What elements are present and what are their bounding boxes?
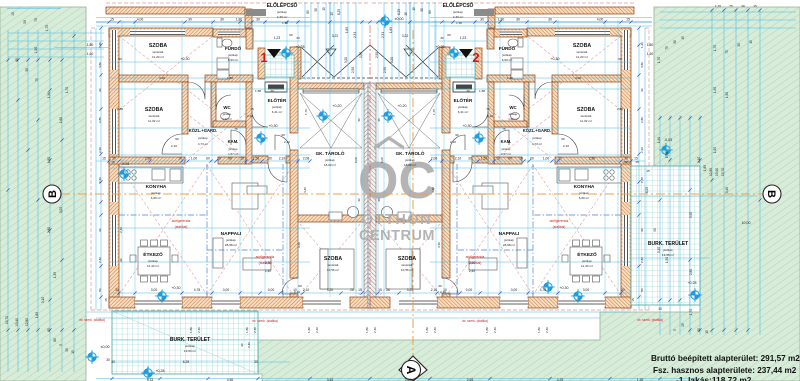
svg-text:1,57 m²: 1,57 m² — [501, 152, 511, 156]
svg-text:19,65 m²: 19,65 m² — [662, 253, 674, 257]
svg-text:13,40: 13,40 — [15, 318, 19, 326]
svg-text:11,20 m²: 11,20 m² — [152, 55, 164, 59]
svg-text:15: 15 — [635, 160, 639, 164]
svg-text:15: 15 — [71, 350, 75, 354]
svg-text:15: 15 — [322, 7, 326, 11]
svg-text:2,40: 2,40 — [98, 257, 102, 263]
svg-text:járólap: járólap — [222, 112, 232, 116]
svg-text:2,80: 2,80 — [689, 269, 693, 275]
svg-text:1,58: 1,58 — [481, 157, 488, 161]
svg-text:15: 15 — [104, 298, 108, 302]
svg-text:15: 15 — [358, 288, 362, 292]
svg-text:2,10: 2,10 — [303, 288, 310, 292]
svg-text:2,40: 2,40 — [469, 269, 475, 273]
svg-text:2,08: 2,08 — [431, 157, 438, 161]
svg-text:75: 75 — [725, 50, 729, 54]
svg-text:1,62 m²: 1,62 m² — [222, 117, 232, 121]
svg-text:1,90: 1,90 — [47, 92, 51, 98]
svg-text:90: 90 — [298, 284, 302, 288]
svg-text:89: 89 — [306, 10, 310, 14]
svg-text:90: 90 — [175, 137, 179, 141]
svg-text:+0,28: +0,28 — [155, 369, 164, 373]
svg-text:3,30: 3,30 — [437, 242, 441, 248]
svg-text:járólap: járólap — [227, 53, 238, 57]
svg-text:30: 30 — [254, 360, 258, 364]
svg-text:15: 15 — [749, 40, 753, 44]
svg-text:15: 15 — [110, 18, 114, 22]
svg-text:járólap: járólap — [501, 147, 511, 151]
entrance arrow 1 — [267, 49, 281, 58]
svg-text:1,60: 1,60 — [59, 117, 63, 123]
svg-text:6,00: 6,00 — [380, 157, 384, 163]
svg-text:járólap: járólap — [271, 105, 282, 109]
svg-text:járólap: járólap — [276, 10, 287, 14]
svg-text:2,31: 2,31 — [353, 32, 357, 38]
svg-text:2,40: 2,40 — [640, 177, 644, 183]
svg-text:1,58: 1,58 — [255, 89, 261, 93]
svg-text:60: 60 — [447, 33, 451, 37]
svg-text:90: 90 — [640, 228, 644, 232]
svg-text:járólap: járólap — [578, 191, 589, 195]
svg-text:+0,30: +0,30 — [268, 124, 277, 128]
svg-text:1,70: 1,70 — [304, 109, 308, 115]
svg-text:26: 26 — [386, 288, 390, 292]
svg-text:KÖZL.+GARD.: KÖZL.+GARD. — [189, 128, 218, 133]
svg-text:75: 75 — [35, 78, 39, 82]
svg-text:12,80: 12,80 — [25, 318, 29, 326]
svg-text:+0,20: +0,20 — [397, 104, 406, 108]
svg-text:acélgerenda: acélgerenda — [550, 219, 569, 223]
svg-text:laminált: laminált — [149, 114, 160, 118]
svg-text:30: 30 — [357, 198, 361, 202]
svg-text:15: 15 — [378, 288, 382, 292]
svg-text:75: 75 — [486, 107, 490, 111]
svg-text:GK. TÁROLÓ: GK. TÁROLÓ — [316, 149, 345, 156]
svg-text:5: 5 — [59, 344, 63, 346]
svg-text:1,80: 1,80 — [485, 327, 489, 333]
svg-text:0,00: 0,00 — [223, 288, 230, 292]
svg-text:laminált: laminált — [153, 50, 164, 54]
svg-text:vb. szerk. (statika): vb. szerk. (statika) — [637, 318, 663, 322]
svg-text:SZOBA: SZOBA — [324, 256, 342, 262]
svg-text:2,30 m²: 2,30 m² — [453, 15, 464, 19]
svg-text:4,00: 4,00 — [575, 76, 581, 80]
svg-text:CENTRUM: CENTRUM — [359, 228, 435, 244]
svg-text:1,90: 1,90 — [657, 137, 661, 143]
svg-text:2,10: 2,10 — [294, 290, 300, 294]
svg-text:járólap: járólap — [457, 105, 468, 109]
svg-text:6,00: 6,00 — [354, 157, 358, 163]
svg-text:3,00: 3,00 — [583, 288, 590, 292]
svg-text:laminált: laminált — [402, 263, 413, 267]
svg-text:±0,00: ±0,00 — [101, 345, 110, 349]
svg-text:járólap: járólap — [184, 344, 195, 348]
svg-text:ELŐLÉPCSŐ: ELŐLÉPCSŐ — [443, 1, 474, 9]
svg-text:ELŐTÉR: ELŐTÉR — [268, 96, 287, 103]
svg-text:járólap: járólap — [404, 158, 415, 162]
svg-text:30: 30 — [548, 18, 552, 22]
svg-text:acélgerenda: acélgerenda — [466, 255, 485, 259]
svg-text:75: 75 — [665, 46, 669, 50]
svg-text:1,90: 1,90 — [713, 87, 717, 93]
svg-text:1,80: 1,80 — [307, 327, 311, 333]
svg-text:15: 15 — [626, 18, 630, 22]
svg-text:2,08: 2,08 — [303, 157, 310, 161]
svg-text:15: 15 — [15, 58, 19, 62]
svg-text:±0,00: ±0,00 — [395, 17, 404, 21]
svg-text:30: 30 — [256, 18, 260, 22]
svg-text:FÜRDŐ: FÜRDŐ — [225, 45, 242, 51]
svg-text:vb. szerk. (statika): vb. szerk. (statika) — [79, 318, 105, 322]
svg-text:1,69: 1,69 — [345, 27, 349, 33]
svg-text:+0,30: +0,30 — [171, 286, 180, 290]
svg-text:6,93 m²: 6,93 m² — [502, 58, 513, 62]
svg-text:3,10: 3,10 — [41, 297, 45, 303]
svg-text:90: 90 — [119, 258, 123, 262]
svg-text:6,60 m²: 6,60 m² — [151, 196, 162, 200]
svg-text:Bruttó beépített alapterület:: Bruttó beépített alapterület: 291,57 m2 — [651, 354, 800, 363]
center axis red dash-dot — [369, 25, 371, 308]
svg-text:15: 15 — [625, 160, 629, 164]
svg-text:15: 15 — [102, 157, 106, 161]
svg-text:2,70: 2,70 — [265, 261, 271, 265]
survey crosshairs — [279, 46, 292, 59]
svg-text:járólap: járólap — [581, 259, 592, 263]
svg-text:3,80: 3,80 — [98, 62, 102, 68]
svg-text:2,10: 2,10 — [284, 140, 290, 144]
svg-text:1,62 m²: 1,62 m² — [508, 117, 518, 121]
svg-text:-0,03: -0,03 — [121, 162, 129, 166]
svg-text:90: 90 — [228, 157, 232, 161]
svg-text:2,40: 2,40 — [247, 342, 251, 348]
watermark OC Otthon Centrum — [358, 136, 436, 244]
svg-text:90: 90 — [281, 133, 285, 137]
svg-text:19,64 m²: 19,64 m² — [184, 349, 196, 353]
svg-text:30: 30 — [420, 8, 424, 12]
svg-text:90: 90 — [640, 88, 644, 92]
svg-text:30: 30 — [23, 20, 27, 24]
svg-text:1,65: 1,65 — [35, 312, 39, 318]
svg-text:30: 30 — [270, 89, 274, 93]
svg-text:1,20: 1,20 — [98, 42, 102, 48]
svg-text:1,70: 1,70 — [432, 109, 436, 115]
section line A-A vertical — [412, 30, 414, 360]
svg-text:10: 10 — [558, 157, 562, 161]
svg-text:1,70: 1,70 — [713, 45, 717, 51]
svg-text:10: 10 — [519, 157, 523, 161]
svg-text:járólap: járólap — [501, 53, 512, 57]
svg-text:4,78: 4,78 — [194, 288, 201, 292]
svg-text:26: 26 — [350, 288, 354, 292]
svg-text:10: 10 — [496, 157, 500, 161]
svg-text:75: 75 — [729, 4, 733, 8]
svg-text:2,10: 2,10 — [487, 114, 493, 118]
svg-text:6,25: 6,25 — [645, 187, 649, 193]
svg-text:SZOBA: SZOBA — [149, 43, 167, 49]
svg-text:2,40: 2,40 — [545, 327, 549, 333]
svg-text:30: 30 — [737, 43, 741, 47]
svg-text:1,50: 1,50 — [87, 52, 94, 56]
svg-text:2,80: 2,80 — [617, 107, 623, 111]
svg-text:-1. lakás:118,72 m2: -1. lakás:118,72 m2 — [676, 375, 752, 381]
svg-text:90: 90 — [240, 343, 244, 347]
svg-text:15: 15 — [412, 7, 416, 11]
svg-text:0,00: 0,00 — [511, 288, 518, 292]
svg-text:3,22: 3,22 — [332, 34, 339, 38]
svg-text:2,80: 2,80 — [117, 107, 123, 111]
svg-text:járólap: járólap — [503, 238, 514, 242]
svg-text:90: 90 — [561, 137, 565, 141]
svg-text:1,50: 1,50 — [282, 21, 288, 25]
svg-text:+0,28: +0,28 — [295, 45, 304, 49]
svg-text:6,60 m²: 6,60 m² — [579, 196, 590, 200]
svg-text:(statikai): (statikai) — [553, 225, 566, 229]
svg-text:2,10: 2,10 — [440, 290, 446, 294]
svg-text:2,40: 2,40 — [253, 327, 257, 333]
svg-text:laminált: laminált — [328, 263, 339, 267]
svg-text:1,80: 1,80 — [498, 18, 505, 22]
svg-text:10,56 m²: 10,56 m² — [327, 268, 339, 272]
svg-text:15: 15 — [111, 160, 115, 164]
svg-text:75: 75 — [502, 127, 506, 131]
right unit (mirrored) — [368, 3, 649, 310]
svg-text:30: 30 — [466, 89, 470, 93]
svg-text:2,10: 2,10 — [279, 157, 286, 161]
svg-text:15: 15 — [11, 12, 15, 16]
svg-text:2,10: 2,10 — [171, 144, 177, 148]
svg-text:1,80: 1,80 — [647, 43, 654, 47]
svg-text:WC: WC — [223, 105, 231, 110]
svg-text:+0,20: +0,20 — [332, 104, 341, 108]
svg-text:3,40: 3,40 — [303, 187, 307, 193]
svg-text:+0,30: +0,30 — [462, 124, 471, 128]
svg-text:30: 30 — [440, 36, 444, 40]
svg-text:2,50: 2,50 — [359, 52, 363, 58]
svg-text:1,70: 1,70 — [65, 87, 69, 93]
svg-text:30: 30 — [621, 288, 625, 292]
svg-text:90: 90 — [118, 57, 122, 61]
svg-text:KONYHA: KONYHA — [146, 184, 167, 190]
svg-text:1,70: 1,70 — [689, 309, 693, 315]
svg-text:0,00: 0,00 — [466, 288, 473, 292]
svg-text:A: A — [404, 366, 418, 375]
svg-text:2,80: 2,80 — [47, 227, 51, 233]
svg-text:25: 25 — [47, 328, 51, 332]
svg-text:KÖZL.+GARD.: KÖZL.+GARD. — [523, 128, 552, 133]
svg-text:2,31: 2,31 — [381, 32, 385, 38]
svg-text:1,58: 1,58 — [253, 157, 260, 161]
svg-text:+0,30: +0,30 — [180, 57, 189, 61]
svg-text:járólap: járólap — [531, 136, 541, 140]
svg-text:OTTHON: OTTHON — [362, 212, 432, 228]
svg-text:1,58: 1,58 — [479, 89, 485, 93]
svg-text:1,23: 1,23 — [274, 36, 281, 40]
svg-text:30: 30 — [296, 36, 300, 40]
svg-text:25: 25 — [681, 323, 685, 327]
svg-text:1: 1 — [260, 50, 267, 65]
svg-text:30: 30 — [188, 18, 192, 22]
svg-text:2,10: 2,10 — [247, 114, 253, 118]
svg-text:+0,30: +0,30 — [559, 286, 568, 290]
svg-text:1,50: 1,50 — [665, 152, 669, 158]
svg-text:2,10: 2,10 — [455, 157, 462, 161]
svg-text:5: 5 — [673, 329, 677, 331]
svg-text:15: 15 — [631, 298, 635, 302]
svg-text:30: 30 — [65, 348, 69, 352]
svg-text:2: 2 — [472, 50, 479, 65]
svg-text:90: 90 — [98, 88, 102, 92]
svg-text:2,40: 2,40 — [98, 177, 102, 183]
svg-text:B: B — [765, 190, 777, 198]
svg-text:90: 90 — [508, 157, 512, 161]
svg-text:vb. szerk. (statika): vb. szerk. (statika) — [462, 319, 488, 323]
svg-text:3,05: 3,05 — [59, 207, 63, 213]
svg-text:90: 90 — [455, 133, 459, 137]
svg-text:75: 75 — [34, 18, 38, 22]
svg-text:2,20: 2,20 — [98, 147, 102, 153]
svg-text:15: 15 — [681, 36, 685, 40]
svg-text:10,00: 10,00 — [742, 221, 751, 225]
svg-text:1,80: 1,80 — [365, 327, 369, 333]
svg-text:30: 30 — [377, 198, 381, 202]
svg-text:60: 60 — [206, 157, 210, 161]
svg-text:NAPPALI: NAPPALI — [221, 231, 242, 237]
green garden right+bottom — [258, 7, 800, 381]
section line B-B orange dash-dot — [61, 30, 763, 360]
svg-text:3,00: 3,00 — [151, 288, 158, 292]
svg-text:járólap: járólap — [508, 112, 518, 116]
svg-text:3,50: 3,50 — [689, 212, 693, 218]
svg-text:90: 90 — [98, 228, 102, 232]
svg-text:6,25: 6,25 — [337, 9, 341, 15]
svg-text:60: 60 — [289, 33, 293, 37]
svg-text:2,40: 2,40 — [640, 257, 644, 263]
svg-text:30: 30 — [106, 358, 110, 362]
svg-text:2,40: 2,40 — [197, 327, 201, 333]
svg-text:90: 90 — [618, 57, 622, 61]
svg-text:2,40: 2,40 — [493, 327, 497, 333]
svg-text:SZOBA: SZOBA — [145, 107, 163, 113]
svg-text:ELŐTÉR: ELŐTÉR — [454, 96, 473, 103]
svg-text:2,80: 2,80 — [98, 117, 102, 123]
svg-text:13,70: 13,70 — [5, 316, 9, 324]
svg-text:járólap: járólap — [150, 191, 161, 195]
svg-text:11,20 m²: 11,20 m² — [576, 55, 588, 59]
svg-text:90: 90 — [653, 228, 657, 232]
svg-text:30: 30 — [357, 118, 361, 122]
terrace bottom-left BURK TERULET — [112, 311, 258, 374]
section marker A bottom — [399, 356, 427, 381]
svg-text:2,10: 2,10 — [450, 140, 456, 144]
svg-text:3,20: 3,20 — [390, 57, 394, 63]
svg-text:2,50: 2,50 — [375, 52, 379, 58]
svg-text:2,90: 2,90 — [145, 157, 152, 161]
svg-text:2,10: 2,10 — [563, 144, 569, 148]
svg-text:4,73 m²: 4,73 m² — [532, 142, 542, 146]
svg-text:28,68 m²: 28,68 m² — [503, 243, 515, 247]
svg-text:BURK. TERÜLET: BURK. TERÜLET — [648, 240, 688, 247]
svg-text:3,80: 3,80 — [640, 62, 644, 68]
svg-text:10: 10 — [178, 157, 182, 161]
svg-text:4,00: 4,00 — [159, 76, 165, 80]
svg-text:6,41 m²: 6,41 m² — [272, 110, 283, 114]
svg-text:2,50: 2,50 — [383, 67, 387, 73]
svg-text:járólap: járólap — [228, 147, 238, 151]
svg-text:11,02 m²: 11,02 m² — [148, 119, 160, 123]
svg-text:30: 30 — [268, 157, 272, 161]
svg-text:2,50: 2,50 — [351, 67, 355, 73]
svg-text:2,80: 2,80 — [640, 117, 644, 123]
svg-text:6,25: 6,25 — [397, 9, 401, 15]
svg-text:89: 89 — [428, 10, 432, 14]
svg-text:acélgerenda: acélgerenda — [256, 255, 275, 259]
svg-text:2,40: 2,40 — [119, 227, 123, 233]
svg-text:1,50: 1,50 — [456, 21, 462, 25]
svg-text:járólap: járólap — [197, 136, 207, 140]
svg-text:11,40 m²: 11,40 m² — [581, 264, 593, 268]
section marker B right — [763, 185, 781, 203]
svg-text:10: 10 — [217, 157, 221, 161]
svg-text:1,80: 1,80 — [537, 327, 541, 333]
svg-text:2,40: 2,40 — [433, 327, 437, 333]
svg-text:1,70: 1,70 — [657, 57, 661, 63]
svg-text:18,00 m²: 18,00 m² — [404, 163, 416, 167]
svg-text:1,50: 1,50 — [725, 92, 729, 98]
svg-text:3,40: 3,40 — [725, 187, 729, 193]
svg-text:6,93 m²: 6,93 m² — [228, 58, 239, 62]
svg-text:18,00 m²: 18,00 m² — [324, 163, 336, 167]
svg-text:11,40 m²: 11,40 m² — [147, 264, 159, 268]
svg-text:80: 80 — [53, 338, 57, 342]
svg-text:60: 60 — [530, 157, 534, 161]
svg-text:2,90: 2,90 — [589, 157, 596, 161]
svg-text:30: 30 — [111, 360, 115, 364]
svg-text:1,69: 1,69 — [389, 27, 393, 33]
svg-text:KAM.: KAM. — [501, 139, 512, 144]
svg-text:30: 30 — [25, 68, 29, 72]
svg-text:30: 30 — [314, 8, 318, 12]
svg-text:30: 30 — [673, 40, 677, 44]
svg-text:acélgerenda: acélgerenda — [172, 219, 191, 223]
svg-text:1,50: 1,50 — [713, 147, 717, 153]
svg-text:50: 50 — [640, 288, 644, 292]
svg-text:1,50: 1,50 — [47, 157, 51, 163]
svg-text:3,20: 3,20 — [344, 57, 348, 63]
svg-text:3,10: 3,10 — [697, 157, 701, 163]
svg-text:4,73 m²: 4,73 m² — [198, 142, 208, 146]
svg-text:6,41 m²: 6,41 m² — [458, 110, 469, 114]
svg-text:-0,03: -0,03 — [664, 138, 672, 142]
svg-text:járólap: járólap — [662, 248, 673, 252]
svg-text:30: 30 — [697, 328, 701, 332]
svg-text:10,56 m²: 10,56 m² — [401, 268, 413, 272]
green garden left — [0, 7, 86, 381]
svg-text:15: 15 — [705, 330, 709, 334]
svg-text:1,50: 1,50 — [647, 52, 654, 56]
section marker B left — [43, 185, 61, 203]
svg-text:KAM.: KAM. — [228, 139, 239, 144]
svg-text:ELŐLÉPCSŐ: ELŐLÉPCSŐ — [267, 1, 298, 9]
svg-text:10: 10 — [240, 157, 244, 161]
svg-text:1,70: 1,70 — [45, 25, 49, 32]
svg-text:90: 90 — [438, 284, 442, 288]
svg-text:járólap: járólap — [324, 158, 335, 162]
svg-text:2,70: 2,70 — [469, 261, 475, 265]
svg-text:SZOBA: SZOBA — [577, 107, 595, 113]
svg-text:vb. szerk. (statika): vb. szerk. (statika) — [252, 319, 278, 323]
svg-text:1,80: 1,80 — [227, 76, 233, 80]
left unit — [91, 3, 372, 310]
